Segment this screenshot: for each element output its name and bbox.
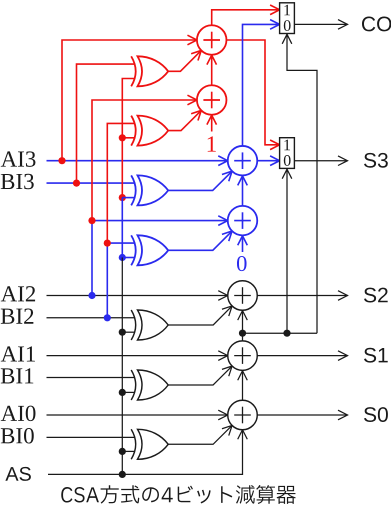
xor gate X2a (red, BI2 xor AS) xyxy=(131,116,168,146)
wire AI3 input rail (blue) xyxy=(47,156,228,166)
wire AS rail blue segment xyxy=(121,198,123,258)
node carry select branch xyxy=(239,330,246,337)
wire AI2 tap to red adder FA2a xyxy=(92,95,197,220)
xor gate X3b (blue, BI3 xor AS) xyxy=(131,175,168,205)
wire carry FA2b to FA3b xyxy=(238,176,248,206)
wire xor X3b output to blue adder FA3b xyxy=(168,171,232,190)
node AS to xor X2 junction xyxy=(119,329,135,336)
node BI2 tap red/blue junction xyxy=(104,240,111,247)
wire output S0 xyxy=(257,410,347,420)
wire BI2 tap to red xor X2a xyxy=(107,123,135,243)
xor gate X2 (BI2 xor AS) xyxy=(131,310,168,340)
wire carry branch to mux selects xyxy=(243,332,318,334)
label BI1 xyxy=(1,368,33,383)
label BI3 xyxy=(1,174,34,189)
label AI1 xyxy=(1,346,35,361)
wire output S3 xyxy=(294,156,347,166)
wire BI1 input rail xyxy=(47,377,136,379)
mux M_S3 (selects sum bit 3) xyxy=(280,138,295,169)
wire AI0 input rail xyxy=(47,410,228,420)
label AS xyxy=(5,467,30,481)
wire output CO xyxy=(294,20,347,30)
wire xor X0 output to adder FA0 xyxy=(168,425,232,444)
node AI2 tap junction xyxy=(88,292,95,299)
label AI2 xyxy=(1,286,35,301)
node AS rail junction xyxy=(119,471,126,478)
node BI3 tap junction xyxy=(73,180,80,187)
wire carry FA0 to FA1 xyxy=(238,371,248,401)
mux M_CO (selects carry out) xyxy=(280,3,295,34)
wire xor X2 output to adder FA2 xyxy=(168,306,232,325)
wire BI2 input rail xyxy=(47,317,136,319)
wire BI0 input rail xyxy=(47,436,136,438)
wire carry FA2a to FA3a xyxy=(207,55,217,85)
xor gate X3a (red, BI3 xor AS) xyxy=(131,56,168,86)
full adder FA3a (red, carry=1 path) xyxy=(197,25,227,55)
label S3 xyxy=(364,153,388,168)
wire xor X2b output to blue adder FA2b xyxy=(168,231,232,250)
wire blue sum FA3b to mux M_S3 input 0 xyxy=(257,156,279,166)
wire select riser to mux M_CO xyxy=(282,34,317,334)
wire BI3 tap to red xor X3a xyxy=(77,64,136,183)
label constant 0 (blue) xyxy=(237,256,247,271)
wire output S1 xyxy=(257,351,347,361)
wire AI3 tap to red adder FA3a xyxy=(62,35,197,161)
xor gate X2b (blue, BI2 xor AS) xyxy=(131,235,168,265)
wire AS rail black segment xyxy=(121,258,123,475)
wire blue carry FA3b to mux M_CO input 0 xyxy=(243,20,280,146)
wire AI1 input rail xyxy=(47,351,228,361)
wire AI2 tap to blue adder FA2b xyxy=(92,216,228,296)
wire xor X2a output to red adder FA2a xyxy=(168,110,201,130)
wire red sum FA3a to mux M_S3 input 1 xyxy=(226,40,279,150)
label AI3 xyxy=(1,151,36,166)
wire xor X3a output to red adder FA3a xyxy=(168,50,201,71)
label S2 xyxy=(364,288,388,303)
full adder FA1 xyxy=(228,341,258,371)
wire BI3 input rail (blue) xyxy=(47,182,136,184)
node AS to xor X1 junction xyxy=(119,389,135,396)
caption CSA-method 4-bit subtractor xyxy=(61,485,295,504)
node AS to xor X0 junction xyxy=(119,448,135,455)
xor gate X0 (BI0 xor AS) xyxy=(131,429,168,459)
wire BI2 tap to blue xor X2b xyxy=(107,243,135,318)
node AI3 tap junction xyxy=(58,157,65,164)
wire carry FA1 to FA2 xyxy=(238,311,248,341)
full adder FA3b (blue, carry=0 path) xyxy=(228,146,258,176)
wire constant 1 stub into FA2a xyxy=(207,115,217,131)
wire AS input rail and carry-in of adder FA0 xyxy=(48,430,247,475)
node AI2 tap red/blue junction xyxy=(88,217,95,224)
wire output S2 xyxy=(257,291,347,301)
wire AI2 input rail xyxy=(47,291,228,301)
node select riser junction xyxy=(283,330,290,337)
wire AS rail red segment to xor X3a xyxy=(122,79,135,198)
label BI2 xyxy=(1,308,34,323)
label S0 xyxy=(364,407,388,422)
wire xor X1 output to adder FA1 xyxy=(168,366,232,385)
full adder FA2 xyxy=(228,281,258,311)
node BI2 tap junction xyxy=(104,314,111,321)
wire red carry FA3a to mux M_CO input 1 xyxy=(212,5,280,25)
node AS to red xor X2a junction xyxy=(119,134,135,141)
node AS to blue xor X2b junction xyxy=(119,254,135,261)
label S1 xyxy=(364,348,388,363)
label constant 1 (red) xyxy=(208,136,216,151)
full adder FA2a (red, carry=1 path) xyxy=(197,85,227,115)
label CO xyxy=(362,17,391,32)
label BI0 xyxy=(1,428,34,444)
wire constant 0 stub into FA2b xyxy=(238,236,248,252)
node AS to blue xor X3b junction xyxy=(119,194,135,201)
full adder FA0 xyxy=(228,400,258,430)
full adder FA2b (blue, carry=0 path) xyxy=(228,206,258,236)
xor gate X1 (BI1 xor AS) xyxy=(131,370,168,400)
label AI0 xyxy=(1,406,36,422)
wire select riser to mux M_S3 xyxy=(282,168,292,333)
